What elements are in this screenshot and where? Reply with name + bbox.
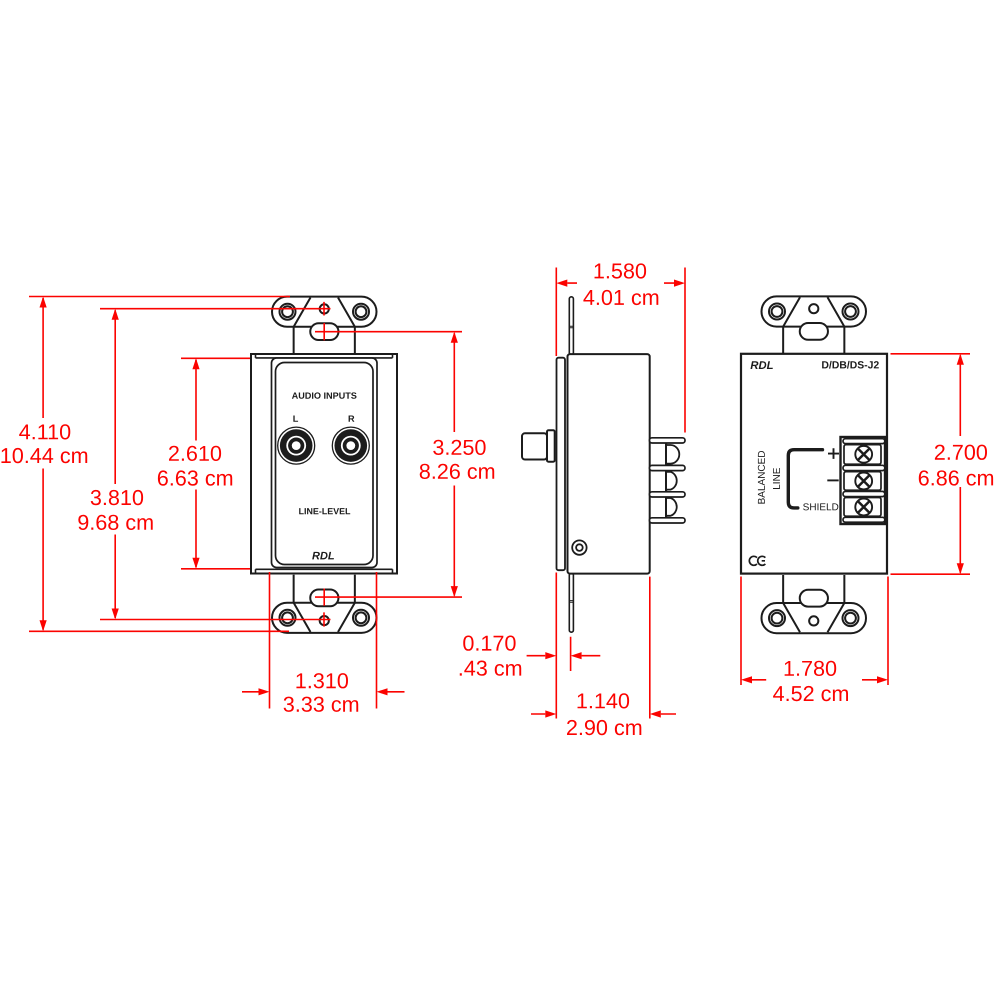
side view: chassis body box — [568, 354, 650, 573]
front view: top mounting bracket — [272, 297, 377, 355]
front view: RDL logo text — [312, 552, 334, 560]
rear view: terminal block outer — [841, 437, 886, 524]
side view: top bracket tab edge — [569, 297, 573, 355]
front view: faceplate outer rectangle — [251, 354, 397, 574]
side view: RCA jack flange — [547, 430, 555, 461]
side view: chassis screw — [572, 540, 586, 554]
side view: bottom bracket tab edge — [569, 573, 573, 632]
rear view: terminal bone bar 1 — [843, 439, 885, 444]
dimension 1.580 extension lines — [556, 268, 685, 433]
dimension text 4.110 — [19, 424, 70, 439]
dimension 4.110 extension lines — [29, 297, 290, 632]
dimension 1.310 line — [242, 691, 405, 693]
dimension 3.810 line — [114, 310, 116, 618]
dimension 1.140 extension lines — [649, 577, 651, 719]
dimension text 1.140 — [578, 693, 630, 708]
dimension 0.170 extension lines — [556, 573, 570, 719]
side view: terminal fin 2 — [650, 465, 686, 470]
dimension text 0.170 — [463, 636, 515, 651]
rear view: terminal screw 2 — [855, 473, 872, 490]
front view: raised inner rounded rectangle outer — [272, 358, 378, 568]
dimension text 1.310 — [296, 673, 348, 688]
side view: RCA jack barrel — [522, 433, 547, 459]
dimension 4.110 line — [42, 298, 44, 630]
rear view: bottom mounting bracket — [762, 575, 867, 633]
rear view: CE mark — [749, 556, 765, 565]
dimension text 3.810 — [91, 490, 143, 505]
front view: faceplate top edge band — [256, 354, 393, 358]
dimension 1.780 line — [752, 679, 877, 681]
dimension 3.810 extension lines — [100, 309, 331, 620]
dimension 1.580 line — [567, 282, 674, 284]
dimension 0.170 line — [527, 655, 601, 657]
dimension 2.610 line — [195, 360, 197, 568]
dimension text 2.610 — [169, 446, 221, 461]
side view: terminal screw 2 — [665, 470, 667, 491]
front view: left RCA jack L — [278, 427, 315, 464]
rear view: terminal cell 2 — [844, 472, 881, 491]
rear view: terminal cell 3 — [844, 498, 881, 517]
rear view: top mounting bracket — [762, 296, 867, 354]
side view: faceplate slab — [557, 358, 566, 571]
side view: terminal screw 1 — [665, 443, 667, 465]
dimension 1.140 line — [531, 713, 676, 715]
dimension 2.700 line — [959, 355, 961, 572]
rear view: model number D/DB/DS-J2 — [822, 361, 879, 369]
dimension text 2.700 — [935, 445, 987, 460]
rear view: terminal screw 1 — [855, 446, 872, 463]
front view: faceplate bottom edge band — [256, 569, 393, 573]
rear view: terminal bone bar 3 — [843, 491, 885, 496]
dimension text 3.250 — [433, 440, 485, 455]
side view: terminal fin 3 — [650, 492, 686, 497]
rear view: terminal bone bar 4 — [843, 517, 885, 522]
rear view: LINE label (rotated) — [773, 468, 780, 489]
dimension 3.250 line — [453, 333, 455, 595]
front view: LINE-LEVEL label — [299, 508, 350, 514]
rear view: terminal cell 1 — [844, 445, 881, 465]
rear view: RDL logo text — [751, 361, 773, 369]
rear view: minus terminal mark — [827, 479, 838, 481]
front view: raised inner rounded rectangle inner — [276, 363, 374, 565]
rear view: terminal bone bar 2 — [843, 465, 885, 470]
dimension text 1.580 — [595, 263, 647, 278]
dimension 3.250 extension lines — [315, 332, 462, 597]
side view: terminal screw 3 — [665, 497, 667, 518]
dimension 1.780 extension lines — [741, 577, 888, 686]
dimension 2.610 extension lines — [181, 358, 250, 569]
front view: R label — [349, 415, 355, 421]
front view: AUDIO INPUTS label — [292, 392, 357, 398]
rear view: SHIELD label — [803, 503, 838, 510]
dimension 1.310 extension lines — [270, 572, 377, 709]
dimension text 1.780 — [785, 661, 837, 676]
rear view: BALANCED label (rotated) — [758, 451, 765, 504]
dimension 2.700 extension lines — [891, 354, 971, 574]
rear view: back plate rectangle — [741, 354, 887, 574]
front view: right RCA jack R — [332, 427, 369, 464]
side view: terminal fin 4 — [650, 518, 686, 523]
rear view: terminal screw 3 — [855, 499, 872, 516]
rear view: plus terminal mark — [828, 448, 839, 459]
rear view: balanced line bracket — [788, 450, 822, 508]
front view: L label — [293, 415, 298, 421]
side view: terminal fin 1 — [650, 438, 686, 443]
front view: bottom mounting bracket — [272, 575, 377, 633]
